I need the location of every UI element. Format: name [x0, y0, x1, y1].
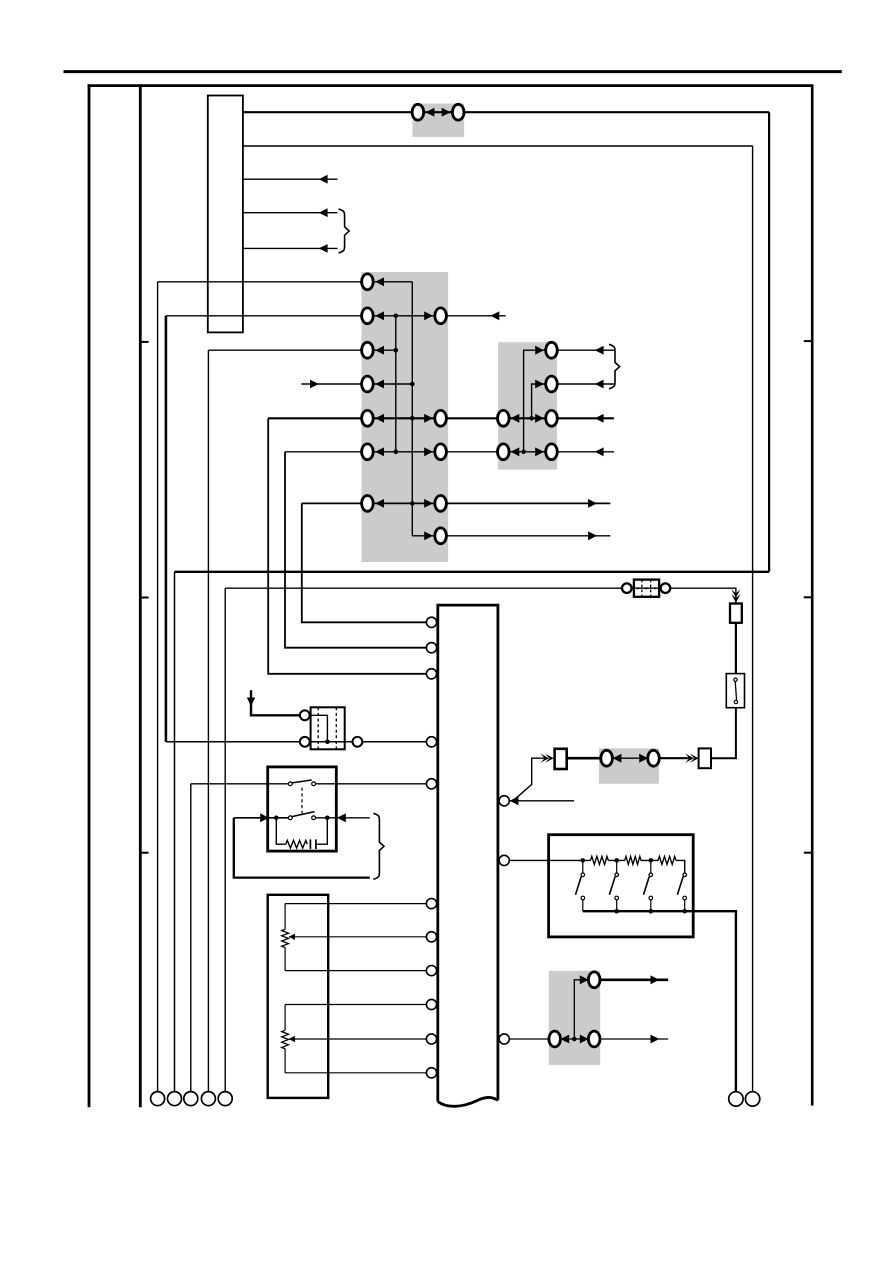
panel switch 3 blade: [644, 877, 650, 895]
ECU left pin 2: [426, 643, 436, 653]
connector row G col1: [362, 496, 374, 512]
arrow row E into third connector: [511, 414, 520, 423]
frame top border: [88, 84, 813, 87]
arrow row G end: [588, 499, 597, 508]
ECU right pin R1: [499, 796, 509, 806]
arrow between top pair left: [426, 108, 435, 117]
noise filter dots: [637, 587, 639, 589]
connector row F col4: [546, 444, 558, 460]
arrow row F end: [595, 447, 604, 456]
ECU left pin 4: [426, 737, 436, 747]
right border tick 1: [804, 340, 811, 342]
wire ECU to bottom-left pair: [509, 1038, 549, 1040]
wire into relay switch2 left: [234, 817, 289, 819]
ECU main box with torn bottom: [438, 605, 498, 1106]
panel bottom bus junction 3: [682, 909, 687, 914]
arrow row B line end: [491, 311, 500, 320]
ground lead wire: [251, 690, 299, 715]
junction relay switch2 left: [274, 816, 279, 821]
arrow bottom pair lower end: [651, 1035, 660, 1044]
noise filter divider 2: [650, 580, 652, 597]
gray highlight: top connector pair: [413, 104, 465, 138]
panel switch 1 tap: [582, 860, 584, 873]
wire row A left: [158, 281, 368, 283]
relay pair right half: [648, 750, 660, 766]
arrow row D2 into connector: [535, 380, 544, 389]
ECU left pin 3: [426, 669, 436, 679]
wire vertical bus v5 to terminal 4: [207, 350, 209, 1092]
relay pair left half: [601, 750, 613, 766]
wire row E: [268, 417, 545, 419]
pot1 wiper arrow: [289, 934, 295, 940]
junction row F at col-left bus: [394, 450, 399, 455]
connector row D col1: [362, 376, 374, 392]
relay switch1 left contact: [288, 782, 292, 786]
ECU left pin 11: [426, 1068, 436, 1078]
wire resistor to circuit breaker: [735, 623, 737, 674]
gray highlight: junction connector column J/C: [362, 272, 449, 562]
arrow row A: [375, 277, 384, 286]
panel bus junction 2: [614, 858, 619, 863]
ECU left pin 1: [426, 617, 436, 627]
arrow row D at connector: [375, 380, 384, 389]
wire row5 stub: [243, 247, 338, 249]
frame left outer border: [88, 84, 91, 1107]
gray highlight: relay-circuit connector pair: [599, 748, 659, 783]
panel resistor 3: [658, 856, 676, 864]
brace rows4-5: [339, 209, 350, 253]
junction relay switch2 right: [325, 816, 330, 821]
wire snubber left leg: [276, 818, 286, 844]
pot2 resistor element: [282, 1030, 289, 1049]
arrow row F at connector: [375, 447, 384, 456]
connector block terminal bottom-right: [353, 737, 363, 747]
snubber resistor: [286, 840, 308, 848]
panel bus junction 1: [581, 858, 586, 863]
ECU right pin R3: [499, 1034, 509, 1044]
panel switch 2 bottom contact: [615, 896, 619, 900]
terminal circle 4: [201, 1092, 215, 1106]
connector block internal junction: [325, 740, 330, 745]
arrow row E into fourth connector: [535, 414, 544, 423]
arrow bottom pair upper: [580, 975, 589, 984]
arrow row F into fourth connector: [535, 447, 544, 456]
panel bottom bus junction 1: [614, 909, 619, 914]
connector row A col1: [362, 274, 374, 290]
wire vertical bus v6 to terminal 5: [224, 588, 226, 1092]
panel bus seg2: [608, 859, 625, 861]
connector row C2 col4: [546, 342, 558, 358]
relay switch2 left contact: [288, 816, 292, 820]
wire breaker down and left to connector: [711, 708, 736, 759]
pot1 resistor element: [282, 929, 289, 947]
arrow row H end: [588, 531, 597, 540]
junction row F: [521, 450, 526, 455]
double arrow into resistor: [731, 589, 740, 598]
wire relay pair to right block: [659, 757, 691, 759]
connector row H col2: [435, 528, 447, 544]
frame right border: [811, 84, 814, 1105]
circuit breaker bottom contact: [734, 700, 737, 703]
arrow row E at connector: [375, 414, 384, 423]
connector row F col3: [498, 444, 510, 460]
junction row C: [394, 348, 399, 353]
pot2 wiper wire: [289, 1038, 427, 1040]
terminal circle 2: [168, 1092, 182, 1106]
resistor block: [730, 604, 742, 623]
relay switch1 blade: [292, 780, 312, 783]
frame left inner border: [139, 84, 142, 1107]
left border tick 1: [141, 341, 149, 343]
wire row4 stub: [243, 212, 338, 214]
pot2 wiper arrow: [289, 1036, 295, 1042]
wire switch panel feed: [509, 859, 590, 861]
connector row F col2: [435, 444, 447, 460]
arrow row B into second connector: [424, 311, 433, 320]
arrow row D2 end: [595, 380, 604, 389]
connector row E col4: [546, 410, 558, 426]
connector row C col1: [362, 342, 374, 358]
panel switch 1 blade: [576, 877, 582, 895]
connector row B col1: [362, 308, 374, 324]
ECU left pin 5: [426, 779, 436, 789]
sensor box: [268, 895, 329, 1098]
arrow row C: [375, 346, 384, 355]
relay pair inner wire: [612, 757, 649, 759]
wire relay top switch row left: [191, 783, 289, 785]
noise filter left terminal: [622, 583, 632, 593]
connector block terminal top-left: [300, 710, 310, 720]
terminal circle 6: [729, 1092, 743, 1106]
bottom pair lower inner wire: [560, 1038, 588, 1040]
wire row C: [208, 349, 395, 351]
ECU left pin 10: [426, 1034, 436, 1044]
panel switch 4 blade: [677, 877, 683, 895]
arrow bottom pair lower right: [580, 1035, 589, 1044]
wire vertical bus v1 to terminal 1: [157, 282, 159, 1092]
switch panel box: [549, 835, 694, 937]
wire hook from ECU pin to relay row: [513, 758, 546, 801]
arrow row B at connector: [375, 311, 384, 320]
wire row E right end: [557, 417, 614, 419]
pot2 top wire: [285, 1004, 426, 1006]
pot2 bottom wire: [285, 1072, 426, 1074]
ECU left pin 8: [426, 966, 436, 976]
junction connector box top-left: [208, 96, 243, 333]
bottom pair connector lower-right: [588, 1031, 600, 1047]
wire vertical bus v4 to terminal 3: [190, 784, 192, 1092]
wire row1 vertical drop at right: [768, 112, 770, 572]
arrow row C2 into connector: [535, 346, 544, 355]
panel switch 2 top contact: [615, 873, 619, 877]
circuit breaker blade: [735, 681, 736, 700]
relay box: [268, 767, 337, 851]
panel switch 4 top contact: [683, 873, 687, 877]
wire relay top switch row right: [316, 783, 427, 785]
snubber capacitor plate 2: [315, 839, 317, 849]
noise filter body: [634, 580, 659, 597]
double arrow into left block: [540, 754, 549, 763]
connector pair top row: right half: [452, 104, 464, 120]
panel switch 1 bottom contact: [581, 896, 585, 900]
wire row3 stub: [243, 178, 338, 180]
connector block divider 1: [317, 707, 319, 749]
panel switch 4 drop: [684, 900, 686, 911]
relay switch2 right contact: [312, 816, 316, 820]
junction row E: [529, 416, 534, 421]
arrow relay pair right: [639, 754, 648, 763]
pot1 left leg lower: [284, 948, 286, 971]
wire left block to relay pair: [567, 757, 602, 760]
circuit breaker top contact: [734, 678, 737, 681]
right border tick 3: [804, 852, 811, 854]
wire vertical bus v2 thick: [165, 316, 168, 742]
arrow row C2 end: [595, 346, 604, 355]
page top rule: [64, 70, 842, 73]
wire row B: [166, 315, 506, 317]
panel switch 1 top contact: [581, 873, 585, 877]
pot2 left leg lower: [284, 1049, 286, 1073]
arrow into ECU right pin: [510, 796, 519, 805]
arrow row3: [319, 175, 328, 184]
panel switch 3 top contact: [649, 873, 653, 877]
brace rows C2-D2: [609, 344, 620, 389]
wire relay loop out and back: [234, 818, 370, 878]
ECU left pin 9: [426, 999, 436, 1009]
wire row1 from junction box to right elbow: [243, 111, 769, 113]
wire row D stub: [302, 383, 413, 385]
junction row B: [394, 314, 399, 319]
panel bus junction 3: [649, 858, 654, 863]
panel resistor 2: [625, 856, 641, 864]
wire row C2 right end: [557, 349, 614, 351]
wire relay switch2 right: [316, 817, 370, 819]
connector pair top row: left half: [412, 104, 424, 120]
connector row E col2: [435, 410, 447, 426]
double arrow into right block: [685, 754, 694, 763]
arrow row D entering: [310, 380, 319, 389]
wire row2 from junction box to right: [243, 145, 753, 147]
panel bus end elbow: [676, 860, 685, 873]
wire row D2 elbow: [532, 384, 546, 418]
arrow row E into second connector: [424, 414, 433, 423]
arrow row G at connector: [375, 499, 384, 508]
wire vertical bus col-left: [395, 316, 397, 452]
panel switch 3 bottom contact: [649, 896, 653, 900]
wire row2 vertical drop to terminal 7: [752, 146, 754, 1092]
noise filter right terminal: [661, 583, 671, 593]
right border tick 2: [804, 596, 811, 598]
connector row F col1: [362, 444, 374, 460]
arrow bottom pair upper end: [651, 975, 660, 984]
wire vertical bus v3 to terminal 2: [174, 572, 176, 1092]
panel switch 2 tap: [616, 860, 618, 873]
ECU left pin 6: [426, 899, 436, 909]
arrow bottom pair lower left: [560, 1035, 569, 1044]
connector row E col1: [362, 410, 374, 426]
wire row D2 right end: [557, 383, 614, 385]
relay row connector block left: [555, 749, 567, 769]
wire row G: [302, 502, 611, 504]
wire snubber right leg: [316, 818, 327, 844]
arrow into relay box right: [337, 813, 346, 822]
ECU right pin R2: [499, 855, 509, 865]
gray highlight: bottom-left connector pair: [549, 971, 600, 1065]
wire noise-filter row and elbow down to resistor: [225, 588, 736, 605]
left border tick 2: [141, 597, 149, 599]
connector row D2 col4: [546, 376, 558, 392]
snubber capacitor plate 1: [309, 839, 311, 849]
junction row E at col-right bus: [410, 416, 415, 421]
pot1 bottom wire: [285, 970, 426, 972]
arrow relay pair left: [613, 754, 622, 763]
junction row D: [410, 382, 415, 387]
wire row E elbow to ECU pin 3: [268, 418, 426, 674]
connector row B col2: [435, 308, 447, 324]
pot1 wiper wire: [289, 936, 427, 938]
terminal circle 7: [745, 1092, 759, 1106]
panel switch 4 bottom contact: [683, 896, 687, 900]
arrow row F into third connector: [511, 447, 520, 456]
wire vertical bus col-right: [411, 282, 413, 536]
panel switch 3 tap: [650, 860, 652, 873]
junction row G: [410, 501, 415, 506]
connector block divider 2: [335, 707, 337, 749]
wire label stub at ECU right pin: [510, 800, 574, 802]
relay ganged link: [301, 788, 303, 814]
relay switch1 right contact: [312, 782, 316, 786]
panel bus seg3: [641, 859, 658, 861]
wire row A right to bus: [373, 281, 413, 283]
arrow row4: [319, 208, 328, 217]
bottom pair connector upper: [588, 972, 600, 988]
gray highlight: second connector column: [498, 342, 557, 469]
relay row connector block right: [699, 748, 711, 768]
connector block internal link: [307, 715, 327, 742]
wire row F elbow to ECU pin 2: [285, 452, 427, 648]
panel switch 1 drop: [582, 900, 584, 911]
bottom pair connector lower-left: [549, 1031, 561, 1047]
wire row H: [412, 535, 610, 537]
arrow between top pair right: [442, 108, 451, 117]
ground arrow: [247, 698, 255, 707]
panel switch 2 blade: [609, 877, 615, 895]
wire row F: [285, 451, 545, 453]
panel switch 3 drop: [650, 900, 652, 911]
wire row F right end: [557, 451, 614, 453]
connector block terminal bottom-left: [300, 737, 310, 747]
ECU left pin 7: [426, 932, 436, 942]
wire connector block bottom row: [166, 741, 427, 743]
connector row E col3: [498, 410, 510, 426]
connector row G col2: [435, 496, 447, 512]
wire row G elbow to ECU pin 1: [302, 503, 427, 622]
wire long bottom run y=572: [175, 571, 770, 573]
bottom pair lower right wire: [600, 1038, 668, 1040]
bottom pair upper right wire: [600, 978, 668, 981]
terminal circle 3: [184, 1092, 198, 1106]
pot1 top wire: [285, 903, 426, 905]
noise filter divider 1: [641, 580, 643, 597]
terminal circle 5: [218, 1092, 232, 1106]
relay switch2 blade: [292, 812, 315, 817]
panel bottom bus junction 2: [649, 909, 654, 914]
pot1 left leg upper: [284, 904, 286, 930]
brace relay loop: [373, 813, 384, 879]
arrow row5: [319, 244, 328, 253]
arrow row G into second connector: [424, 499, 433, 508]
arrow into relay box left: [260, 813, 269, 822]
circuit breaker box: [726, 674, 744, 708]
junction bottom pair: [572, 1037, 577, 1042]
panel bottom bus to terminal 6: [583, 911, 736, 1092]
left border tick 3: [141, 852, 149, 854]
wire row C2 elbow: [524, 350, 546, 452]
arrow row F into second connector: [424, 447, 433, 456]
panel switch 2 drop: [616, 900, 618, 911]
terminal circle 1: [151, 1092, 165, 1106]
panel resistor 1: [591, 856, 609, 864]
arrow row E end: [595, 414, 604, 423]
connector block body: [311, 707, 345, 749]
bottom pair riser: [574, 980, 587, 1039]
pot2 left leg upper: [284, 1005, 286, 1031]
arrow row H into connector: [424, 531, 433, 540]
